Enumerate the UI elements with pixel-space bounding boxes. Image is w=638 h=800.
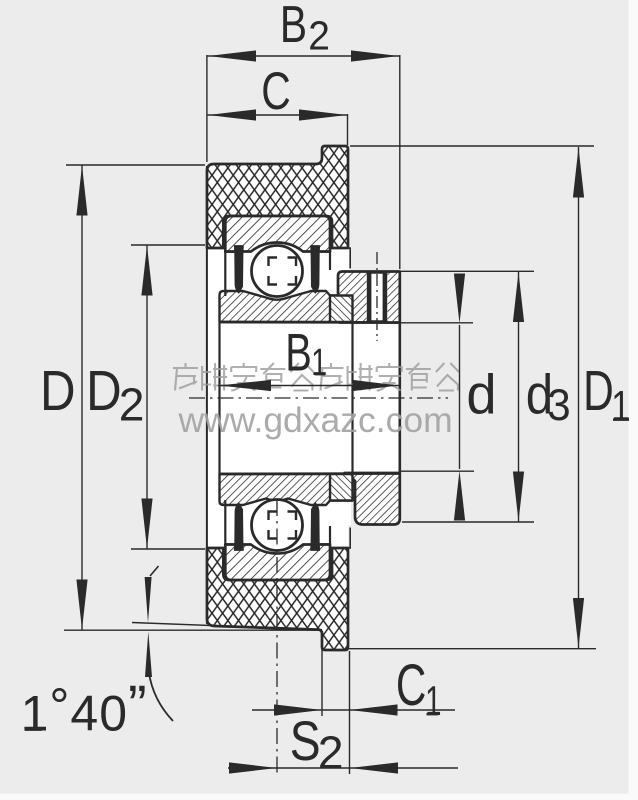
inner ring top cross-section with raceway groove (hatched)	[220, 291, 353, 322]
dimension D1 line and arrows	[346, 146, 596, 649]
housing flange top cross-section (crosshatched)	[207, 146, 348, 248]
angle 1°40” tilted reference line	[132, 623, 322, 630]
dimension C line and arrows	[208, 109, 348, 145]
svg-text:D: D	[40, 360, 76, 423]
locking collar bottom cross-section (hatched)	[345, 473, 400, 525]
label C	[261, 61, 291, 120]
raceway shoulder line top-right	[320, 251, 329, 253]
svg-text:C: C	[396, 652, 426, 717]
bearing outer ring bottom cross-section (hatched)	[225, 545, 330, 581]
angle 1°40” arrows	[145, 566, 173, 721]
raceway shoulder line top-left	[226, 251, 234, 253]
ball top screw-slot dashed square	[269, 258, 297, 285]
collar right face seen through bore	[398, 322, 401, 474]
svg-text:2: 2	[119, 379, 145, 431]
svg-text:C: C	[261, 61, 291, 120]
housing left face edge	[206, 166, 208, 624]
label B1	[285, 323, 312, 382]
bearing outer ring top cross-section (hatched)	[225, 216, 330, 252]
label d3	[526, 364, 553, 427]
svg-text:1: 1	[311, 342, 327, 384]
ball bottom screw-slot dashed square	[269, 512, 297, 539]
svg-text:D: D	[583, 359, 614, 422]
watermark line 1 (company name glyphs)	[173, 363, 459, 391]
housing back ledge bottom	[332, 528, 350, 549]
inner ring left face seen through bore	[218, 322, 220, 474]
dimension C1 line and arrows	[252, 632, 455, 774]
outer ring right face edge top	[329, 251, 331, 270]
svg-text:D: D	[86, 360, 122, 423]
outer ring left face edge bottom	[224, 500, 226, 545]
inner ring bottom cross-section with raceway groove (hatched)	[220, 474, 353, 505]
bore surface bottom edge	[220, 472, 400, 475]
outer ring right face edge bottom	[329, 526, 331, 545]
seal bottom right (black)	[311, 503, 320, 550]
seal top left (black)	[235, 246, 244, 293]
svg-text:1: 1	[425, 677, 441, 725]
svg-text:2: 2	[318, 726, 344, 778]
dimension B1 line and arrows	[218, 380, 399, 391]
label D2	[86, 360, 122, 423]
inner ring sleeve under collar (back-hatched)	[330, 296, 353, 323]
svg-text:B: B	[280, 0, 307, 53]
label D1	[583, 359, 614, 422]
seal bottom left (black)	[235, 503, 244, 550]
svg-text:2: 2	[308, 13, 330, 58]
dimension D line and arrows	[64, 165, 320, 630]
grub screw G1 in collar	[367, 272, 388, 323]
svg-text:d: d	[466, 363, 496, 426]
label d	[466, 363, 496, 426]
housing flange bottom cross-section (crosshatched, tilted back face)	[207, 548, 348, 650]
dimension D2 line and arrows	[131, 245, 205, 549]
ball top	[252, 246, 303, 297]
housing back ledge top	[332, 248, 350, 269]
svg-text:B: B	[285, 323, 312, 382]
dimension d3 line and arrows	[401, 271, 534, 522]
shaft axis centerline	[189, 397, 448, 399]
grub screw axis centerline	[376, 252, 378, 341]
svg-text:3: 3	[547, 381, 570, 430]
svg-text:1: 1	[611, 383, 630, 430]
ball center plane centerline	[276, 500, 278, 776]
label D	[40, 360, 76, 423]
outer ring left face edge top	[224, 251, 226, 296]
label S2	[290, 710, 321, 772]
raceway shoulder line bottom-left	[226, 543, 234, 545]
inner ring sleeve under collar bottom (back-hatched)	[330, 474, 353, 501]
white page margin right	[629, 0, 638, 800]
ball bottom	[252, 500, 303, 551]
svg-text:S: S	[290, 710, 321, 772]
dimension B2 line and arrows	[207, 50, 400, 269]
svg-text:www.gdxazc.com: www.gdxazc.com	[178, 400, 453, 440]
dimension S2 line and arrows	[228, 762, 458, 773]
label B2	[280, 0, 307, 53]
seal top right (black)	[311, 246, 320, 293]
label C1	[396, 652, 426, 717]
bore surface top edge	[220, 321, 400, 324]
part silhouette white fill	[207, 164, 348, 632]
locking collar top cross-section (hatched)	[338, 272, 400, 323]
inner ring sleeve end face seen through bore	[351, 322, 353, 474]
raceway shoulder line bottom-right	[320, 543, 329, 545]
dimension d line and arrows	[401, 274, 474, 521]
white page margin bottom	[0, 794, 638, 800]
